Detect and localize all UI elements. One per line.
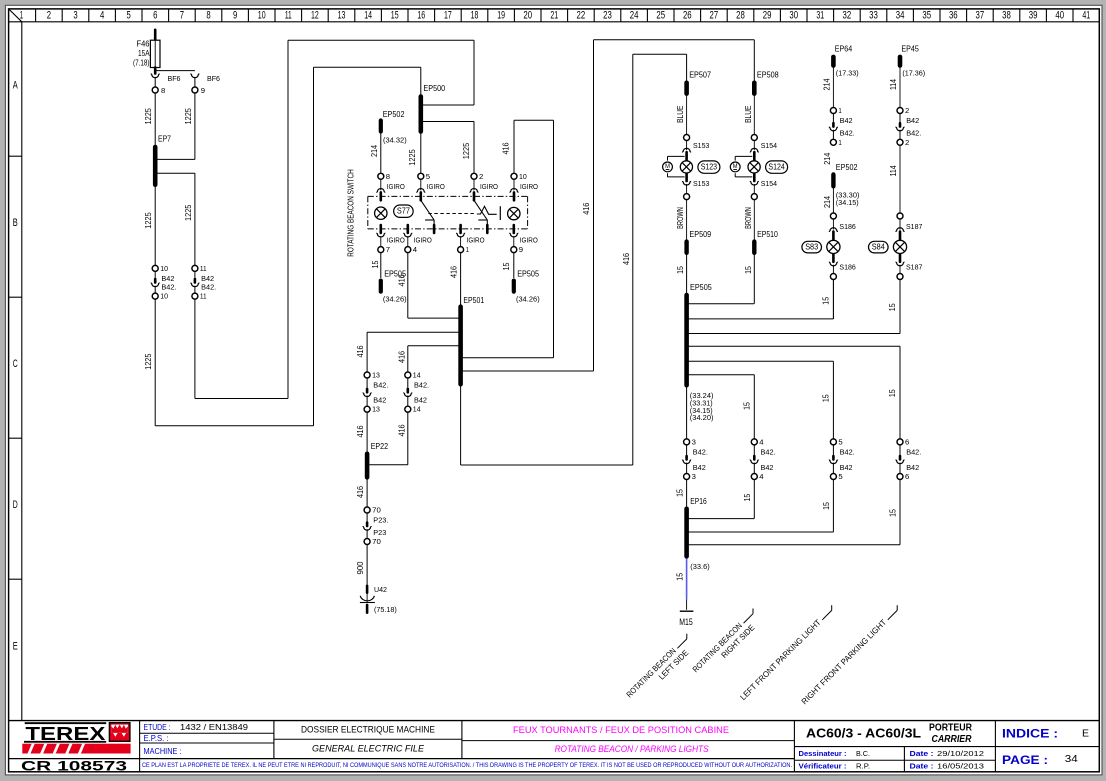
svg-text:4: 4 bbox=[100, 10, 104, 22]
svg-text:5: 5 bbox=[426, 172, 430, 181]
svg-text:10: 10 bbox=[160, 292, 168, 301]
svg-text:1225: 1225 bbox=[462, 142, 471, 159]
svg-text:15: 15 bbox=[888, 389, 897, 397]
svg-text:S187: S187 bbox=[906, 262, 922, 271]
svg-text:M15: M15 bbox=[679, 617, 693, 627]
svg-text:B42: B42 bbox=[373, 396, 386, 405]
svg-text:S124: S124 bbox=[768, 163, 785, 172]
svg-text:S186: S186 bbox=[839, 222, 855, 231]
svg-text:15: 15 bbox=[822, 502, 831, 510]
svg-text:15: 15 bbox=[675, 573, 684, 581]
svg-text:416: 416 bbox=[450, 266, 459, 278]
svg-text:32: 32 bbox=[843, 10, 852, 22]
svg-text:214: 214 bbox=[823, 196, 832, 208]
svg-text:214: 214 bbox=[370, 145, 379, 157]
svg-text:U42: U42 bbox=[374, 585, 387, 594]
svg-text:15A: 15A bbox=[138, 49, 150, 58]
svg-text:S187: S187 bbox=[906, 222, 922, 231]
svg-text:39: 39 bbox=[1029, 10, 1038, 22]
svg-text:15: 15 bbox=[743, 493, 752, 501]
svg-text:1225: 1225 bbox=[184, 204, 193, 221]
svg-text:B42.: B42. bbox=[840, 129, 855, 138]
svg-text:114: 114 bbox=[889, 165, 898, 176]
svg-text:(33.6): (33.6) bbox=[690, 562, 710, 571]
svg-text:13: 13 bbox=[372, 371, 380, 380]
svg-text:B42.: B42. bbox=[761, 448, 776, 457]
svg-text:17: 17 bbox=[444, 10, 452, 22]
svg-text:15: 15 bbox=[502, 262, 511, 270]
svg-text:E.P.S. :: E.P.S. : bbox=[144, 733, 169, 743]
svg-text:26: 26 bbox=[683, 10, 692, 22]
svg-text:B: B bbox=[13, 217, 18, 229]
svg-text:11: 11 bbox=[200, 292, 207, 301]
svg-text:A: A bbox=[13, 80, 18, 92]
svg-text:3: 3 bbox=[692, 472, 696, 481]
svg-text:16/05/2013: 16/05/2013 bbox=[937, 762, 984, 771]
svg-text:1: 1 bbox=[20, 10, 23, 22]
svg-text:12: 12 bbox=[311, 10, 319, 22]
svg-text:4: 4 bbox=[759, 472, 763, 481]
svg-text:1225: 1225 bbox=[408, 149, 417, 166]
svg-text:DOSSIER ELECTRIQUE MACHINE: DOSSIER ELECTRIQUE MACHINE bbox=[301, 724, 435, 735]
svg-text:15: 15 bbox=[822, 297, 831, 305]
svg-text:34: 34 bbox=[896, 10, 905, 22]
svg-text:38: 38 bbox=[1002, 10, 1011, 22]
svg-text:1: 1 bbox=[466, 245, 469, 254]
svg-text:37: 37 bbox=[976, 10, 985, 22]
svg-text:15: 15 bbox=[676, 266, 685, 274]
svg-text:(34.32): (34.32) bbox=[383, 136, 407, 145]
svg-text:PORTEUR: PORTEUR bbox=[929, 723, 973, 734]
svg-text:15: 15 bbox=[743, 402, 752, 410]
svg-text:1432 / EN13849: 1432 / EN13849 bbox=[180, 722, 248, 732]
svg-text:BROWN: BROWN bbox=[744, 207, 753, 229]
svg-text:29/10/2012: 29/10/2012 bbox=[937, 749, 984, 758]
svg-text:IGIRO: IGIRO bbox=[427, 182, 445, 191]
svg-text:(34.15): (34.15) bbox=[836, 198, 859, 207]
svg-text:14: 14 bbox=[413, 371, 421, 380]
svg-text:416: 416 bbox=[502, 142, 511, 154]
svg-text:27: 27 bbox=[710, 10, 719, 22]
svg-text:S83: S83 bbox=[805, 243, 818, 252]
svg-text:30: 30 bbox=[789, 10, 798, 22]
svg-text:CE PLAN EST LA PROPRIETE DE TE: CE PLAN EST LA PROPRIETE DE TEREX. IL NE… bbox=[142, 762, 792, 769]
svg-text:S154: S154 bbox=[761, 141, 777, 150]
svg-text:4: 4 bbox=[413, 245, 417, 254]
svg-text:41: 41 bbox=[1082, 10, 1090, 22]
svg-text:416: 416 bbox=[356, 345, 365, 357]
svg-text:22: 22 bbox=[577, 10, 586, 22]
svg-text:70: 70 bbox=[372, 537, 381, 546]
svg-text:BLUE: BLUE bbox=[744, 105, 753, 123]
svg-text:40: 40 bbox=[1055, 10, 1064, 22]
svg-text:CR 108573: CR 108573 bbox=[21, 757, 127, 773]
svg-text:EP502: EP502 bbox=[383, 110, 405, 119]
svg-text:B42.: B42. bbox=[414, 381, 429, 390]
svg-text:3: 3 bbox=[73, 10, 77, 22]
svg-text:BROWN: BROWN bbox=[676, 207, 685, 229]
svg-text:(17.36): (17.36) bbox=[902, 69, 925, 78]
svg-text:9: 9 bbox=[519, 245, 523, 254]
svg-text:8: 8 bbox=[386, 172, 390, 181]
svg-text:15: 15 bbox=[371, 260, 380, 268]
svg-text:2: 2 bbox=[905, 106, 909, 115]
svg-text:EP7: EP7 bbox=[158, 135, 171, 144]
svg-text:13: 13 bbox=[372, 405, 380, 414]
svg-text:S186: S186 bbox=[839, 262, 855, 271]
svg-text:2: 2 bbox=[905, 138, 909, 147]
svg-text:23: 23 bbox=[603, 10, 612, 22]
svg-text:EP22: EP22 bbox=[371, 442, 388, 451]
svg-text:B42.: B42. bbox=[201, 282, 216, 291]
svg-text:IGIRO: IGIRO bbox=[480, 182, 498, 191]
svg-text:6: 6 bbox=[905, 437, 909, 446]
svg-text:416: 416 bbox=[622, 253, 631, 265]
svg-text:EP64: EP64 bbox=[835, 45, 853, 54]
svg-text:214: 214 bbox=[823, 152, 832, 164]
svg-text:EP45: EP45 bbox=[901, 45, 919, 54]
svg-text:14: 14 bbox=[413, 405, 421, 414]
svg-text:(34.26): (34.26) bbox=[516, 295, 540, 304]
svg-text:B42: B42 bbox=[761, 463, 774, 472]
svg-text:B42: B42 bbox=[906, 463, 919, 472]
svg-text:416: 416 bbox=[398, 424, 407, 436]
svg-text:(34.26): (34.26) bbox=[383, 295, 407, 304]
svg-text:7: 7 bbox=[386, 245, 390, 254]
svg-text:10: 10 bbox=[519, 172, 527, 181]
svg-text:EP510: EP510 bbox=[757, 230, 778, 239]
svg-text:114: 114 bbox=[889, 79, 898, 90]
svg-text:FEUX TOURNANTS / FEUX DE POSIT: FEUX TOURNANTS / FEUX DE POSITION CABINE bbox=[513, 725, 729, 736]
svg-text:D: D bbox=[13, 499, 18, 511]
svg-text:9: 9 bbox=[233, 10, 237, 22]
svg-text:EP509: EP509 bbox=[689, 230, 711, 239]
svg-text:B42: B42 bbox=[840, 116, 853, 125]
svg-text:EP502: EP502 bbox=[836, 163, 858, 172]
svg-text:Date :: Date : bbox=[910, 762, 934, 771]
svg-text:B42.: B42. bbox=[840, 448, 855, 457]
svg-text:4: 4 bbox=[759, 437, 763, 446]
svg-text:2: 2 bbox=[47, 10, 51, 22]
svg-text:B42.: B42. bbox=[373, 381, 388, 390]
svg-text:19: 19 bbox=[497, 10, 505, 22]
svg-text:B.C.: B.C. bbox=[856, 749, 870, 758]
svg-text:5: 5 bbox=[838, 472, 842, 481]
svg-text:B42: B42 bbox=[840, 463, 853, 472]
svg-text:7: 7 bbox=[180, 10, 184, 22]
svg-text:1225: 1225 bbox=[144, 108, 153, 125]
svg-text:TEREX: TEREX bbox=[25, 723, 106, 744]
svg-text:EP16: EP16 bbox=[690, 497, 706, 506]
svg-text:ROTATING BEACON / PARKING LIGH: ROTATING BEACON / PARKING LIGHTS bbox=[555, 744, 710, 755]
svg-text:Date :: Date : bbox=[910, 749, 934, 758]
svg-text:B42: B42 bbox=[414, 396, 427, 405]
svg-text:(7.18): (7.18) bbox=[133, 59, 150, 68]
svg-text:1: 1 bbox=[838, 106, 841, 115]
svg-text:PAGE :: PAGE : bbox=[1002, 753, 1048, 767]
svg-text:214: 214 bbox=[823, 78, 832, 90]
svg-text:E: E bbox=[13, 640, 18, 652]
svg-text:6: 6 bbox=[905, 472, 909, 481]
svg-text:11: 11 bbox=[200, 264, 207, 273]
svg-text:416: 416 bbox=[582, 202, 591, 214]
svg-text:1: 1 bbox=[838, 138, 841, 147]
svg-text:36: 36 bbox=[949, 10, 958, 22]
svg-text:28: 28 bbox=[736, 10, 745, 22]
svg-text:416: 416 bbox=[356, 425, 365, 437]
svg-text:C: C bbox=[13, 358, 18, 370]
svg-text:1225: 1225 bbox=[144, 212, 153, 229]
svg-text:8: 8 bbox=[206, 10, 210, 22]
svg-text:10: 10 bbox=[258, 10, 266, 22]
svg-text:5: 5 bbox=[127, 10, 131, 22]
svg-text:3: 3 bbox=[692, 437, 696, 446]
svg-text:(34.20): (34.20) bbox=[690, 413, 714, 422]
svg-text:(75.18): (75.18) bbox=[374, 605, 397, 614]
svg-text:EP505: EP505 bbox=[517, 270, 539, 279]
svg-text:(17.33): (17.33) bbox=[836, 69, 859, 78]
svg-text:B42.: B42. bbox=[161, 282, 176, 291]
svg-text:INDICE :: INDICE : bbox=[1002, 727, 1058, 741]
svg-text:6: 6 bbox=[153, 10, 157, 22]
svg-text:14: 14 bbox=[364, 10, 372, 22]
svg-text:B42: B42 bbox=[693, 463, 706, 472]
svg-text:IGIRO: IGIRO bbox=[467, 235, 485, 244]
svg-text:EP501: EP501 bbox=[463, 296, 484, 305]
svg-text:24: 24 bbox=[630, 10, 639, 22]
svg-text:10: 10 bbox=[160, 264, 168, 273]
svg-text:E: E bbox=[1082, 728, 1089, 740]
svg-text:25: 25 bbox=[656, 10, 665, 22]
svg-text:15: 15 bbox=[391, 10, 399, 22]
svg-text:31: 31 bbox=[816, 10, 824, 22]
svg-text:9: 9 bbox=[201, 86, 205, 95]
svg-text:15: 15 bbox=[888, 303, 897, 311]
svg-text:416: 416 bbox=[398, 351, 407, 363]
svg-text:21: 21 bbox=[550, 10, 558, 22]
svg-text:ETUDE :: ETUDE : bbox=[144, 722, 171, 732]
svg-text:S84: S84 bbox=[872, 243, 885, 252]
svg-text:ROTATING BEACON SWITCH: ROTATING BEACON SWITCH bbox=[347, 169, 356, 257]
svg-text:18: 18 bbox=[471, 10, 479, 22]
svg-text:70: 70 bbox=[372, 506, 381, 515]
svg-text:5: 5 bbox=[838, 437, 842, 446]
svg-text:B42.: B42. bbox=[906, 448, 921, 457]
svg-text:B42.: B42. bbox=[906, 129, 921, 138]
svg-text:R.P.: R.P. bbox=[856, 762, 870, 771]
svg-text:EP507: EP507 bbox=[689, 71, 711, 80]
svg-text:16: 16 bbox=[417, 10, 425, 22]
svg-text:1225: 1225 bbox=[184, 108, 193, 125]
svg-text:IGIRO: IGIRO bbox=[387, 235, 405, 244]
svg-text:11: 11 bbox=[285, 10, 292, 22]
svg-text:8: 8 bbox=[161, 86, 165, 95]
svg-text:Dessinateur :: Dessinateur : bbox=[799, 749, 847, 758]
svg-text:IGIRO: IGIRO bbox=[414, 235, 432, 244]
svg-text:BF6: BF6 bbox=[168, 74, 181, 83]
svg-text:B42.: B42. bbox=[693, 448, 708, 457]
svg-text:2: 2 bbox=[479, 172, 483, 181]
svg-text:900: 900 bbox=[356, 561, 365, 574]
svg-text:EP508: EP508 bbox=[757, 71, 779, 80]
svg-text:S123: S123 bbox=[701, 163, 718, 172]
svg-text:CARRIER: CARRIER bbox=[932, 734, 973, 745]
svg-text:416: 416 bbox=[398, 274, 407, 286]
svg-text:34: 34 bbox=[1065, 753, 1078, 765]
svg-text:GENERAL ELECTRIC FILE: GENERAL ELECTRIC FILE bbox=[312, 744, 425, 755]
svg-text:15: 15 bbox=[744, 266, 753, 274]
svg-text:IGIRO: IGIRO bbox=[520, 182, 538, 191]
svg-text:S154: S154 bbox=[761, 179, 777, 188]
svg-text:416: 416 bbox=[356, 486, 365, 498]
svg-text:35: 35 bbox=[922, 10, 931, 22]
svg-text:EP505: EP505 bbox=[690, 283, 712, 292]
svg-text:15: 15 bbox=[675, 489, 684, 497]
svg-text:EP500: EP500 bbox=[423, 84, 445, 93]
svg-text:P23.: P23. bbox=[373, 516, 388, 525]
svg-text:S153: S153 bbox=[693, 141, 709, 150]
svg-text:BF6: BF6 bbox=[207, 74, 220, 83]
svg-text:15: 15 bbox=[822, 394, 831, 402]
svg-text:P23: P23 bbox=[373, 528, 386, 537]
svg-text:20: 20 bbox=[523, 10, 532, 22]
svg-text:Vérificateur :: Vérificateur : bbox=[799, 762, 847, 771]
svg-text:MACHINE :: MACHINE : bbox=[144, 746, 182, 756]
svg-text:15: 15 bbox=[889, 509, 898, 517]
svg-text:1225: 1225 bbox=[144, 353, 153, 370]
svg-text:13: 13 bbox=[338, 10, 346, 22]
svg-text:IGIRO: IGIRO bbox=[520, 235, 538, 244]
svg-text:B42: B42 bbox=[906, 116, 919, 125]
svg-text:F46: F46 bbox=[137, 40, 150, 49]
svg-text:BLUE: BLUE bbox=[676, 105, 685, 123]
svg-text:29: 29 bbox=[763, 10, 772, 22]
svg-text:S153: S153 bbox=[693, 179, 709, 188]
svg-text:S77: S77 bbox=[397, 207, 410, 216]
svg-text:33: 33 bbox=[869, 10, 878, 22]
svg-text:IGIRO: IGIRO bbox=[387, 182, 405, 191]
svg-text:AC60/3 - AC60/3L: AC60/3 - AC60/3L bbox=[806, 726, 921, 741]
